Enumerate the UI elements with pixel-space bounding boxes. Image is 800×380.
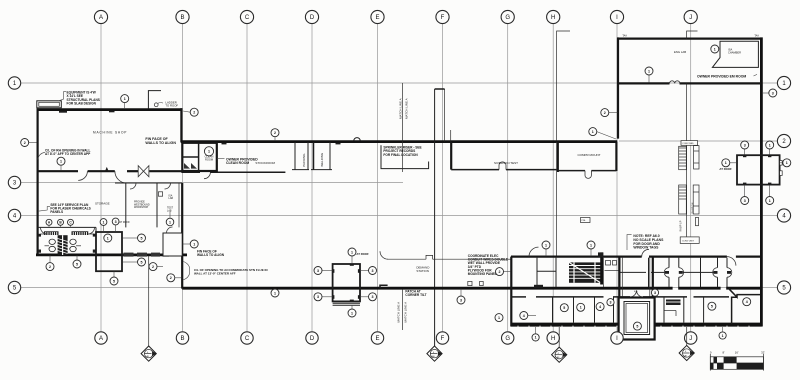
svg-text:PACKING: PACKING [302, 153, 306, 167]
column bubble I bottom [611, 332, 623, 344]
svg-text:CONV UNIT: CONV UNIT [682, 240, 695, 242]
passage 1 walls [668, 258, 670, 268]
entry corridor walls [618, 257, 620, 298]
svg-text:2: 2 [193, 110, 195, 114]
svg-text:NOTE: REF A6.0NO SCALE PLANSFO: NOTE: REF A6.0NO SCALE PLANSFOR DOOR AND… [633, 234, 664, 249]
keynote 1 toilet roof [100, 219, 107, 232]
svg-text:3: 3 [744, 143, 746, 147]
svg-text:AT ROOF: AT ROOF [719, 167, 732, 171]
svg-text:3: 3 [654, 291, 656, 295]
svg-text:5: 5 [141, 260, 143, 264]
column bubble G bottom [502, 332, 514, 344]
column bubble D top [305, 10, 318, 23]
keynote 1 clean room [204, 147, 213, 156]
svg-text:1: 1 [725, 161, 727, 165]
stockroom bottom wall seg1 [181, 171, 200, 173]
toilet fixture 4 [70, 246, 76, 251]
grid line B [182, 24, 184, 331]
grid line 1 [21, 82, 777, 84]
svg-text:3: 3 [317, 269, 319, 273]
graphic scale bar [710, 357, 763, 370]
grid line J [690, 24, 692, 331]
column bubble J bottom [685, 332, 697, 344]
plumbing chase [58, 235, 68, 255]
svg-text:3: 3 [372, 295, 374, 299]
lab wall 3 [178, 183, 180, 227]
em double door [670, 81, 680, 84]
office lower partition 3 [594, 298, 596, 323]
office partition 700 [700, 258, 702, 287]
compr bottom wall [558, 170, 585, 172]
keynote 5 janitor e2 [122, 258, 145, 266]
mid square room [333, 264, 360, 301]
svg-text:0: 0 [710, 350, 712, 354]
svg-text:4: 4 [599, 305, 601, 309]
clean room door arc [204, 172, 210, 178]
grid line D [311, 24, 313, 331]
left building east wall [181, 183, 183, 289]
svg-text:H: H [551, 336, 555, 342]
svg-text:5: 5 [113, 279, 115, 283]
column bubble D bottom [306, 332, 318, 344]
svg-text:2: 2 [152, 265, 154, 269]
column bubble A top [94, 10, 107, 23]
conveyor strip 2 [694, 146, 699, 169]
keynote 3 mid square sw [314, 293, 332, 301]
svg-text:FIN FACE OFWALLS TO ALIGN: FIN FACE OFWALLS TO ALIGN [145, 137, 176, 145]
svg-text:2: 2 [604, 111, 606, 115]
svg-text:E: E [375, 336, 379, 342]
grid line I [616, 24, 618, 331]
keynote 1 side room [183, 240, 199, 248]
section line H mid [556, 142, 558, 256]
keynote 3 toilet roof [112, 218, 119, 232]
sterilizer L wall [381, 145, 429, 168]
office lower partition 8 [703, 298, 705, 323]
keynote 1 office n2 [587, 241, 595, 256]
long wall row5 segment3 [726, 287, 761, 290]
roof line L-mark [148, 91, 161, 109]
keynote 1 mid square s [348, 305, 356, 317]
keynote 1 compr nw [589, 128, 616, 139]
stair dark block [569, 262, 601, 282]
grid line 3 [21, 182, 403, 184]
machine shop bottom wall seg3 [127, 170, 138, 172]
small label box HI [581, 218, 591, 223]
grid line 2 [619, 140, 777, 142]
grid line E [377, 24, 379, 331]
svg-text:WELDING: WELDING [320, 152, 324, 167]
svg-text:MACHINE SHOP: MACHINE SHOP [93, 130, 127, 134]
office lower partition 2 [573, 298, 575, 323]
keynote 5 janitor s [110, 271, 118, 285]
svg-text:MATCH LINE A: MATCH LINE A [405, 98, 409, 119]
toilet fixture 2 [49, 246, 55, 251]
svg-text:1: 1 [786, 161, 788, 165]
svg-text:1: 1 [590, 243, 592, 247]
machine shop left wall [36, 108, 38, 256]
keynote 2 below toilets [46, 255, 54, 270]
svg-text:2: 2 [49, 265, 51, 269]
keynote 3 mid square ne [360, 267, 376, 275]
conveyor label box 2 [680, 237, 699, 244]
keynote 1 bottom wall 1 [532, 327, 539, 341]
svg-text:3: 3 [610, 300, 612, 304]
svg-text:C: C [245, 15, 250, 21]
svg-text:1: 1 [124, 97, 126, 101]
svg-text:1: 1 [714, 47, 716, 51]
keynote 4 office corner [743, 298, 751, 306]
entry vestibule inner [624, 302, 650, 335]
match line lower [402, 289, 404, 330]
side room by east wall [163, 233, 182, 256]
leader clean room [217, 158, 225, 160]
svg-text:E: E [375, 15, 379, 21]
svg-text:CONV PAD: CONV PAD [682, 142, 694, 145]
siverson door notch [499, 162, 506, 170]
svg-text:1: 1 [169, 220, 171, 224]
svg-text:TAA: TAA [754, 35, 759, 38]
svg-text:G: G [505, 336, 510, 342]
section line H upper [557, 31, 570, 141]
lab rooms top wall [115, 182, 182, 184]
svg-text:1: 1 [60, 159, 62, 163]
toilet window hatch [124, 253, 134, 257]
keynote 5 office room3 [560, 304, 568, 312]
svg-text:A: A [99, 336, 103, 342]
svg-text:1: 1 [769, 199, 771, 203]
conveyor strip 3 [679, 185, 687, 214]
svg-text:2: 2 [499, 270, 501, 274]
ladder symbol [154, 103, 158, 107]
svg-text:3: 3 [772, 91, 774, 95]
office top wall seg3 [736, 256, 762, 258]
office partition 537 [536, 258, 538, 287]
keynote 1 pad w [722, 159, 737, 167]
flue opening brace [184, 262, 190, 280]
office lower partition 6 [663, 298, 665, 323]
svg-text:5: 5 [711, 304, 713, 308]
keynote 2 left wall [21, 139, 37, 147]
svg-text:5: 5 [563, 306, 565, 310]
toilet door arc nw [41, 227, 48, 234]
svg-text:1: 1 [648, 69, 650, 73]
svg-text:CLEANROOM: CLEANROOM [205, 154, 214, 161]
svg-text:OWNER PROVIDED EM ROOM: OWNER PROVIDED EM ROOM [697, 74, 746, 78]
svg-text:PROVIDEWESTBOUNDWORKSHOP: PROVIDEWESTBOUNDWORKSHOP [134, 201, 150, 209]
mid square double bottom [333, 302, 360, 304]
passage 2 walls [717, 258, 719, 268]
keynote 1 mid square n [348, 248, 356, 264]
equipment slab rect [37, 101, 62, 108]
svg-text:A: A [99, 15, 103, 21]
lab door arc 1 [130, 183, 136, 189]
em room top wall [617, 37, 763, 39]
svg-text:3: 3 [460, 298, 462, 302]
riser wall right [444, 89, 446, 142]
column bubble C bottom [241, 332, 253, 344]
stair side wall [600, 252, 603, 284]
svg-text:32': 32' [761, 350, 765, 354]
toilet door arc ne [88, 227, 95, 234]
svg-text:1: 1 [535, 336, 537, 340]
passage 1 jambs [665, 271, 669, 274]
keynote 5 entry [633, 322, 641, 330]
svg-text:3: 3 [744, 199, 746, 203]
machine shop bottom wall seg4 [149, 170, 182, 172]
row bubble 5 right [777, 281, 790, 294]
svg-text:1: 1 [208, 150, 210, 154]
svg-text:MATCH LINE A: MATCH LINE A [404, 302, 408, 323]
svg-text:3: 3 [372, 269, 374, 273]
keynote 3 office sw [457, 289, 465, 304]
keynote 1 bottom wall 2 [719, 327, 726, 339]
svg-text:1: 1 [769, 143, 771, 147]
vestibule door arcs [630, 290, 643, 297]
leader service plan [38, 207, 50, 212]
svg-text:J: J [689, 15, 692, 21]
narrow box [696, 217, 699, 225]
equipment pad [737, 155, 780, 184]
keynote 2 ms corner [183, 108, 198, 116]
keynote 3 mid square nw [314, 267, 332, 275]
column bubble F top [436, 10, 449, 23]
keynote 5 janitor e1 [122, 234, 145, 242]
keynote 1 pad ne [766, 141, 774, 155]
row bubble 4 right [777, 209, 790, 222]
lab door arc 2 [165, 183, 171, 189]
column bubble I top [610, 10, 623, 23]
svg-text:1: 1 [580, 306, 582, 310]
keynote 3 pad sw [741, 185, 749, 205]
toilet fixture 1 [49, 239, 55, 244]
isa chamber rect [712, 41, 758, 67]
keynote 1 ms top [121, 95, 129, 109]
keynote 1 ms opening [57, 157, 65, 170]
svg-text:1: 1 [351, 250, 353, 254]
svg-text:C: C [245, 336, 250, 342]
keynote 1 em room [645, 67, 653, 83]
fixture tag B [58, 219, 64, 227]
ac room walls [605, 270, 620, 272]
keynote 3 right wall [762, 89, 777, 97]
lab wall 2 [156, 183, 158, 227]
lab wall 1 [125, 183, 127, 227]
dark block lower [666, 300, 681, 306]
svg-text:F: F [441, 15, 445, 21]
column bubble H top [547, 10, 560, 23]
svg-text:MATCH LINE A: MATCH LINE A [399, 98, 403, 119]
office partition 603 [603, 258, 605, 287]
corridor bottom wall [511, 296, 526, 298]
column bubble A bottom [95, 332, 107, 344]
keynote 2 flue [167, 274, 181, 282]
svg-text:2: 2 [170, 276, 172, 280]
office door arc top 1 [529, 247, 539, 257]
keynote 1 office room4 [577, 303, 585, 311]
grid line A [100, 24, 102, 331]
svg-text:J: J [689, 336, 692, 342]
stockroom bottom wall seg2 [210, 171, 285, 173]
keynote 2 band wall [271, 129, 279, 141]
toilet fixture 3 [70, 239, 76, 244]
janitor square room [96, 232, 122, 271]
svg-text:SPRINKLER RISER - SEEPROJECT R: SPRINKLER RISER - SEEPROJECT RECORDSFOR … [383, 146, 421, 157]
vestibule block outline [182, 143, 217, 171]
svg-text:EQUIPMENT IS 4'WX 14'L SEESTRU: EQUIPMENT IS 4'WX 14'L SEESTRUCTURAL PLA… [67, 91, 100, 106]
office bottom wall dashes [517, 326, 519, 327]
keynote 3 corridor [651, 289, 658, 296]
row bubble 3 left [8, 176, 20, 188]
siverson bottom wall [451, 169, 499, 171]
fixture tag A [46, 219, 52, 227]
office lower partition 4 [613, 298, 615, 323]
stair top nub [598, 252, 603, 257]
svg-text:G: G [505, 15, 510, 21]
keynote 2 side room [149, 263, 163, 271]
band wall nubs [222, 143, 227, 145]
svg-text:D: D [310, 15, 315, 21]
svg-text:F: F [441, 336, 445, 342]
machine shop top wall [37, 108, 183, 111]
grid line G [507, 24, 509, 331]
toilet shelf teeth right [72, 232, 73, 235]
column bubble B top [176, 10, 189, 23]
toilet bottom wall [36, 253, 187, 256]
svg-text:STORAGE: STORAGE [95, 202, 110, 206]
em room left wall [617, 37, 619, 138]
grid line F [442, 24, 444, 331]
column bubble B bottom [176, 332, 188, 344]
svg-text:DEMANDSTATION: DEMANDSTATION [416, 265, 430, 272]
svg-text:5: 5 [141, 236, 143, 240]
svg-text:1: 1 [722, 334, 724, 338]
ms wall nubs [59, 111, 67, 113]
demand station door arc [380, 251, 388, 259]
row bubble 2 right [777, 134, 790, 147]
office partition 620 [619, 258, 621, 287]
door arc storage 2 [115, 171, 127, 183]
svg-text:B: B [180, 336, 184, 342]
svg-text:C/L OF OPENING TO ACCOMMODATE: C/L OF OPENING TO ACCOMMODATE STN FLUE I… [194, 268, 268, 276]
long wall row5 segment1 [182, 287, 672, 290]
machine shop east wall [180, 108, 182, 142]
passage 1 door bumps [664, 268, 683, 278]
svg-text:8': 8' [723, 350, 726, 354]
keynote 1 labs [166, 211, 174, 226]
svg-text:4: 4 [746, 300, 748, 304]
svg-text:PATCH ATCORNER TILT: PATCH ATCORNER TILT [405, 290, 426, 297]
svg-text:1: 1 [351, 311, 353, 315]
svg-text:1: 1 [545, 243, 547, 247]
svg-text:RAMP DN: RAMP DN [692, 202, 695, 213]
office partition 648 [648, 258, 650, 287]
demand station top wall [388, 258, 426, 260]
roof hatch bump [354, 138, 360, 141]
toilet lav nubs [38, 250, 41, 253]
svg-text:475: 475 [634, 291, 638, 293]
equipment pad tabs [780, 161, 783, 166]
row bubble 5 left [8, 281, 20, 293]
office mid wall 620-668 [620, 271, 646, 273]
svg-text:5: 5 [636, 324, 638, 328]
row bubble 1 right [777, 76, 790, 89]
office bottom wall [511, 323, 762, 327]
office mid wall 537-556 [537, 270, 556, 272]
svg-text:SIVERSON TEST: SIVERSON TEST [494, 161, 518, 165]
keynote 5 office room6 [708, 302, 716, 310]
svg-text:FIN FACE OFWALLS TO ALIGN: FIN FACE OFWALLS TO ALIGN [197, 249, 225, 257]
svg-text:3: 3 [317, 295, 319, 299]
svg-text:3: 3 [115, 220, 117, 224]
lab fixture [158, 192, 162, 196]
office partition 556 [555, 258, 557, 287]
svg-text:B: B [180, 15, 184, 21]
keynote 1 isa [711, 45, 719, 53]
svg-text:5: 5 [76, 262, 78, 266]
fixture tag C [68, 219, 74, 227]
machine shop bottom wall seg1 [37, 170, 79, 172]
svg-text:D: D [310, 336, 315, 342]
keynote 1 office room1 [495, 314, 503, 322]
compr left wall [557, 142, 559, 172]
compr right wall [615, 142, 617, 171]
entry vestibule outer [619, 298, 655, 340]
section marker H [552, 327, 567, 362]
svg-text:1: 1 [103, 220, 105, 224]
equipment pad nubs [743, 155, 746, 157]
column bubble E bottom [371, 332, 383, 344]
office top wall seg1 [511, 256, 642, 258]
passage 2 door bumps [713, 268, 732, 278]
siverson left wall [450, 142, 452, 170]
vestibule hatch [184, 163, 197, 169]
j aux line [686, 83, 688, 236]
office door arc corner [727, 257, 736, 266]
svg-text:1: 1 [274, 291, 276, 295]
svg-text:AT ROOF: AT ROOF [119, 221, 130, 224]
svg-text:2: 2 [24, 141, 26, 145]
conveyor strip 4 [693, 185, 699, 214]
svg-text:TAA: TAA [622, 35, 627, 38]
riser wall vertical [434, 89, 436, 346]
keynote 5 below toilets [73, 255, 81, 268]
svg-text:16': 16' [735, 350, 739, 354]
svg-text:1: 1 [107, 236, 109, 240]
svg-text:LADDERTO ROOF: LADDERTO ROOF [165, 100, 178, 107]
office door arc top 2 [642, 249, 649, 256]
keynote 4 office room5 [596, 303, 604, 311]
column bubble E top [371, 10, 384, 23]
keynote 1 office n1 [542, 241, 550, 256]
packing room walls [294, 142, 296, 170]
machine shop bottom wall seg2 [88, 170, 115, 172]
svg-text:1: 1 [193, 242, 195, 246]
svg-text:2: 2 [274, 131, 276, 135]
office left wall [510, 257, 512, 327]
long wall step [380, 285, 388, 288]
row1 wall seg1 [617, 82, 670, 84]
svg-text:MATCH LINE A: MATCH LINE A [397, 302, 401, 323]
toilet partitions [45, 245, 50, 247]
office lower partition 1 [552, 298, 554, 323]
svg-text:COMPR MOUNT: COMPR MOUNT [578, 153, 601, 157]
grid line H [552, 24, 554, 331]
welding room walls [313, 142, 315, 170]
door arc storage 1 [78, 171, 87, 180]
svg-text:RAMP UP: RAMP UP [680, 220, 683, 231]
equipment leader bracket [59, 92, 67, 101]
